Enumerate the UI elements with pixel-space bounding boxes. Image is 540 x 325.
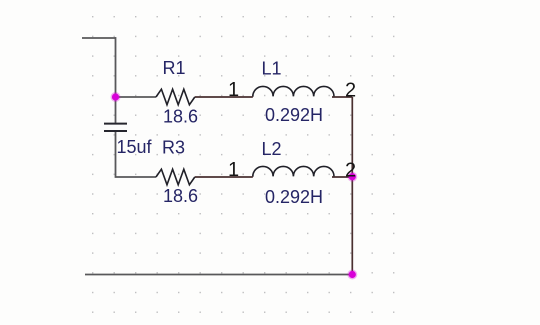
svg-text:R3: R3 bbox=[162, 138, 185, 158]
svg-text:18.6: 18.6 bbox=[163, 186, 198, 206]
svg-text:18.6: 18.6 bbox=[163, 107, 198, 127]
svg-text:2: 2 bbox=[345, 80, 356, 102]
svg-text:0.292H: 0.292H bbox=[265, 187, 323, 207]
svg-text:15uf: 15uf bbox=[117, 137, 153, 157]
svg-text:L2: L2 bbox=[262, 139, 282, 159]
svg-text:R1: R1 bbox=[163, 58, 186, 78]
svg-text:0.292H: 0.292H bbox=[265, 105, 323, 125]
svg-text:2: 2 bbox=[345, 159, 356, 181]
svg-text:L1: L1 bbox=[262, 59, 282, 79]
svg-text:1: 1 bbox=[228, 159, 239, 181]
svg-text:1: 1 bbox=[228, 79, 239, 101]
